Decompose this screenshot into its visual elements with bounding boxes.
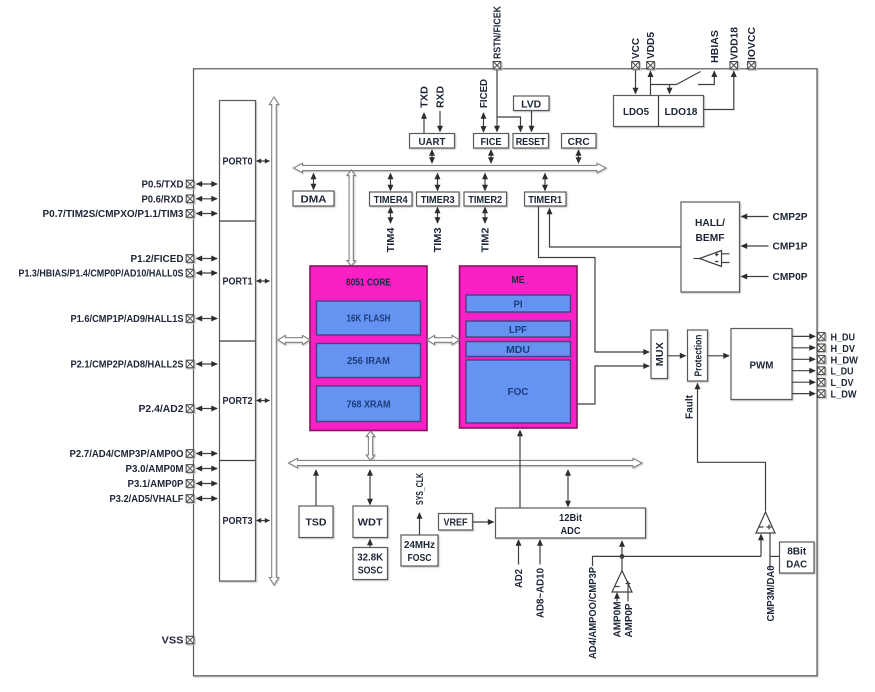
wire VCC to LDO5 [635,70,637,94]
svg-text:P2.4/AD2: P2.4/AD2 [139,403,184,415]
pin L_DU [792,370,815,372]
block TIMER4 [370,192,413,206]
wire bus to TIMER3 [437,174,439,191]
block ME [460,266,578,428]
svg-text:24MHz: 24MHz [404,539,435,551]
block 8Bit DAC [780,542,815,573]
svg-text:P3.1/AMP0P: P3.1/AMP0P [128,478,184,490]
wire LDO18 to VDD18 [704,71,734,109]
comparator CMP3 (fault) [756,512,775,570]
svg-text:16K FLASH: 16K FLASH [347,314,391,325]
block FOC [466,360,571,423]
switch blade [677,72,701,85]
wire FICED to FICE [483,113,485,132]
block HALL/BEMF [681,202,740,292]
block 256 IRAM [317,344,421,378]
svg-text:TIMER4: TIMER4 [374,195,409,206]
svg-text:Fault: Fault [684,395,696,419]
svg-text:CMP2P: CMP2P [773,211,808,223]
svg-text:H_DU: H_DU [831,331,856,343]
svg-text:P3.0/AMP0M: P3.0/AMP0M [126,463,184,475]
divider PORT1/PORT2 [220,340,256,342]
wire TIMER2 to TIM2 [484,208,486,224]
svg-text:TIM4: TIM4 [385,227,397,252]
svg-text:HALL/: HALL/ [695,218,725,229]
svg-text:PWM: PWM [750,361,774,372]
pin RSTN/FICEK [493,62,502,71]
svg-text:HBIAS: HBIAS [709,30,721,63]
wire pin P3.0 to PORT3 [197,468,218,470]
wire bus to ADC [567,470,569,507]
block PWM [731,329,792,400]
pin P3.0/AMP0M [186,465,195,474]
svg-text:H_DW: H_DW [831,354,859,366]
block 16K FLASH [317,301,421,335]
svg-text:ADC: ADC [561,525,581,537]
svg-text:TIMER3: TIMER3 [421,195,456,206]
block TIMER2 [464,192,507,206]
wire net to ADC [621,541,623,556]
wire pin P2.1 to PORT2 [197,363,218,365]
wire TSD to bus [315,470,317,506]
wire AD2 to ADC [518,540,520,565]
wire TIMER4 to TIM4 [390,208,392,224]
svg-text:L_DW: L_DW [831,389,857,401]
svg-text:8051 CORE: 8051 CORE [346,278,391,289]
block CRC [562,134,597,149]
svg-text:32.8K: 32.8K [357,552,383,564]
chip outer border [194,69,818,676]
svg-text:AMP0P: AMP0P [623,604,635,638]
svg-text:TIM3: TIM3 [432,227,444,252]
block 12Bit ADC [496,508,646,538]
svg-text:IOVCC: IOVCC [746,27,758,60]
wire VREF to ADC [473,521,494,523]
wire DAC to comparator input [770,555,780,557]
svg-text:Protection: Protection [692,335,704,377]
svg-text:LDO18: LDO18 [665,107,699,118]
wire AD4/AMP0O/CMP3P net [593,556,762,566]
block 24MHz FOSC [401,535,438,566]
block TIMER1 [525,192,567,206]
pin IOVCC [748,62,757,71]
pin P2.4/AD2 [186,405,195,414]
svg-text:P0.7/TIM2S/CMPXO/P1.1/TIM3: P0.7/TIM2S/CMPXO/P1.1/TIM3 [43,208,184,220]
wire pin P2.4 to PORT2 [197,408,218,410]
svg-text:TIM2: TIM2 [480,227,492,252]
wire switch to LDO18 [669,85,671,94]
wire pin P3.1 to PORT3 [197,483,218,485]
block TSD [299,506,333,538]
svg-text:P2.1/CMP2P/AD8/HALL2S: P2.1/CMP2P/AD8/HALL2S [71,359,184,371]
pin H_DU [792,335,815,337]
wire CRC to bus [578,150,580,163]
wire bus to TIMER2 [484,174,486,191]
block PI [466,295,571,312]
pin P1.3/HBIAS/P1.4/CMP0P/AD10/HALL0S [186,269,195,278]
block 32.8K SOSC [353,548,388,580]
svg-text:RESET: RESET [516,137,546,148]
wire HALL/BEMF to TIMER1 [550,209,682,248]
svg-text:RXD: RXD [435,86,447,108]
svg-text:P3.2/AD5/VHALF: P3.2/AD5/VHALF [110,493,185,505]
svg-text:8Bit: 8Bit [787,546,806,558]
bus: horizontal system bus [289,458,643,467]
pin L_DV [792,381,815,383]
block VREF [439,514,473,531]
pin P1.6/CMP1P/AD9/HALL1S [186,315,195,324]
svg-text:BEMF: BEMF [696,233,725,244]
pin P0.6/RXD [186,195,195,204]
wire switch to HBIAS [698,71,714,84]
pin P0.7/TIM2S/CMPXO/P1.1/TIM3 [186,210,195,219]
wire bus to TIMER4 [390,174,392,191]
wire fault comparator to Protection [698,384,766,512]
block UART [410,134,455,149]
wire Protection to PWM [708,355,729,357]
wire pin P1.3 to PORT1 [197,272,218,274]
svg-text:LVD: LVD [521,99,541,110]
svg-text:TSD: TSD [306,518,327,529]
pin VCC [632,62,641,71]
svg-text:P0.5/TXD: P0.5/TXD [142,179,184,191]
svg-text:AD4/AMPOO/CMP3P: AD4/AMPOO/CMP3P [587,567,599,659]
wire MUX to Protection [668,355,686,357]
block LDO5/LDO18 [614,96,704,127]
svg-text:CMP3M/DA0: CMP3M/DA0 [765,565,777,621]
bus: horizontal peripheral bus [294,163,607,172]
svg-text:12Bit: 12Bit [559,512,582,524]
svg-text:AD2: AD2 [513,569,525,588]
svg-text:PORT1: PORT1 [223,276,253,288]
svg-text:MUX: MUX [654,342,666,366]
block 8051 CORE [310,266,427,431]
wire pin P0.6 to PORT0 [197,198,218,200]
svg-text:VDD18: VDD18 [728,27,740,60]
divider PORT0/PORT1 [220,220,256,222]
wire RXD to UART [439,111,441,132]
pin P3.2/AD5/VHALF [186,495,195,504]
svg-text:PORT3: PORT3 [223,515,253,527]
pin VDD18 [730,62,739,71]
pin L_DW [792,393,815,395]
bus: 8051 to ME connector [427,335,460,344]
block RESET [513,134,549,149]
wire TIMER1 to MUX [539,207,650,353]
pin P0.5/TXD [186,180,195,189]
wire RSTN to FICE [496,70,498,132]
svg-text:UART: UART [419,137,446,148]
pin H_DW [792,358,815,360]
pin P3.1/AMP0P [186,480,195,489]
svg-text:FOSC: FOSC [408,552,432,564]
svg-text:L_DV: L_DV [831,377,854,389]
wire PORT0 to port bus [257,160,270,162]
wire UART to TXD [423,113,425,134]
svg-text:RSTN/FICEK: RSTN/FICEK [492,6,504,59]
block WDT [353,506,388,538]
wire LVD to RESET [531,111,533,132]
pin VSS [186,636,195,645]
svg-text:P1.2/FICED: P1.2/FICED [131,253,184,265]
svg-text:TIMER2: TIMER2 [468,195,503,206]
wire LDO5 to VDD5 [650,71,652,95]
comparator symbol inside HALL/BEMF [694,251,730,267]
svg-text:256 IRAM: 256 IRAM [347,356,390,367]
block LVD [514,96,550,111]
svg-text:FICED: FICED [478,79,490,108]
bus: vertical port bus [269,97,278,585]
svg-text:P1.3/HBIAS/P1.4/CMP0P/AD10/HAL: P1.3/HBIAS/P1.4/CMP0P/AD10/HALL0S [19,268,184,280]
block LPF [466,321,571,337]
svg-text:VSS: VSS [162,635,184,647]
wire ADC to FOC [519,431,521,508]
wire FOSC SYS_CLK [419,513,421,535]
svg-text:CMP1P: CMP1P [773,241,808,253]
wire PORT1 to port bus [257,280,270,282]
svg-text:VREF: VREF [444,517,468,529]
wire bus to DMA [313,174,315,190]
svg-text:VDD5: VDD5 [645,32,657,59]
svg-text:PI: PI [514,300,523,311]
block MUX [651,330,668,379]
svg-text:LPF: LPF [509,325,527,336]
bus: core to peripheral bus connector [347,170,355,266]
svg-text:CRC: CRC [568,137,590,148]
wire FICE to bus [490,150,492,163]
svg-text:SYS_CLK: SYS_CLK [414,473,426,505]
pin CMP2P [742,216,769,218]
svg-text:AD8~AD10: AD8~AD10 [535,568,547,618]
svg-text:ME: ME [512,275,525,286]
svg-text:SOSC: SOSC [358,565,383,577]
wire VDD5 switch feed [651,84,677,86]
bus: 8051 to system bus connector [366,431,374,461]
wire pin P0.5 to PORT0 [197,183,218,185]
wire pin P0.7 to PORT0 [197,213,218,215]
svg-text:768 XRAM: 768 XRAM [347,400,391,411]
svg-text:L_DU: L_DU [831,366,854,378]
wire pin P1.6 to PORT1 [197,318,218,320]
block MDU [466,342,571,357]
svg-text:P2.7/AD4/CMP3P/AMP0O: P2.7/AD4/CMP3P/AMP0O [70,448,184,460]
svg-text:P0.6/RXD: P0.6/RXD [142,193,184,205]
svg-text:PORT0: PORT0 [223,156,253,168]
block 768 XRAM [317,386,421,422]
divider PORT2/PORT3 [220,460,256,462]
svg-text:AMP0M: AMP0M [612,601,624,637]
svg-text:WDT: WDT [358,518,383,529]
svg-text:FOC: FOC [508,387,529,398]
wire AD8~AD10 to ADC [539,540,541,565]
block PORT column [220,101,256,582]
svg-text:VCC: VCC [630,38,642,59]
wire SOSC to WDT [369,540,371,548]
wire PORT3 to port bus [257,520,270,522]
wire pin P3.2 to PORT3 [197,498,218,500]
svg-text:CMP0P: CMP0P [773,271,808,283]
svg-text:MDU: MDU [506,345,530,356]
wire bus to TIMER1 [544,174,546,191]
wire pin P2.7 to PORT2 [197,453,218,455]
block TIMER3 [417,192,460,206]
svg-text:PORT2: PORT2 [223,395,253,407]
svg-text:DAC: DAC [786,559,807,571]
svg-text:FICE: FICE [481,137,502,148]
block DMA [293,191,334,206]
bus: port bus to 8051 connector [278,335,310,344]
svg-text:H_DV: H_DV [831,343,856,355]
wire WDT to bus [369,470,371,505]
op-amp AMP0 [612,557,632,602]
junction node [620,554,625,559]
pin CMP0P [742,276,769,278]
pin VDD5 [647,62,656,71]
wire TIMER3 to TIM3 [437,208,439,224]
pin P2.1/CMP2P/AD8/HALL2S [186,360,195,369]
block FICE [474,134,509,149]
wire UART to bus [431,150,433,163]
wire FOC to MUX [577,366,649,404]
block Protection [688,330,708,381]
pin P1.2/FICED [186,255,195,264]
pin P2.7/AD4/CMP3P/AMP0O [186,450,195,459]
svg-text:TXD: TXD [419,86,431,108]
wire RSTN branch to RESET [497,117,521,132]
pin CMP1P [742,245,769,247]
svg-text:P1.6/CMP1P/AD9/HALL1S: P1.6/CMP1P/AD9/HALL1S [71,313,184,325]
svg-text:LDO5: LDO5 [623,107,650,118]
svg-text:TIMER1: TIMER1 [528,195,563,206]
pin H_DV [792,347,815,349]
wire pin P1.2 to PORT1 [197,258,218,260]
wire PORT2 to port bus [257,400,270,402]
svg-text:DMA: DMA [301,195,327,206]
